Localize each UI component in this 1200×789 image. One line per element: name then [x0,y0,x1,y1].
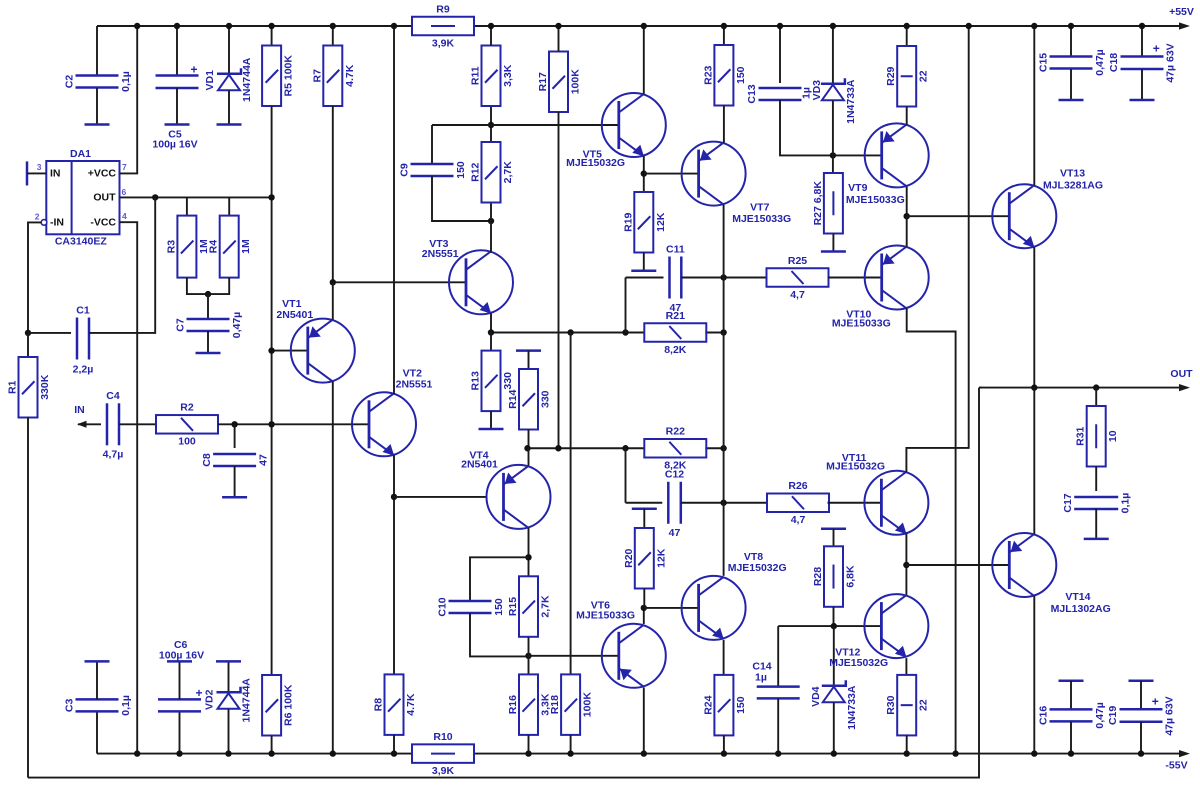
wire VT6 emitter to -55V rail [643,688,645,754]
junction -55V rail / R16 [525,750,531,756]
resistor R1 [7,357,52,418]
capacitor C12 [665,469,684,540]
OUT terminal arrow [1179,384,1190,391]
junction C12 wire / VT7-VT8 column [720,500,726,506]
wire VT11 collector to +55V rail [906,26,968,472]
junction VT11 emitter / VT12 collector / VT14 base [903,562,909,568]
transistor VT2 [352,392,416,456]
wire VT5 base wire [432,124,619,126]
wire VT14 emitter up to OUT node [1033,388,1035,534]
-55V terminal arrow [1179,750,1190,757]
wire R7 bottom to VT3 base node [332,106,334,282]
zener diode VD4 [810,680,858,730]
svg-text:R5 100K: R5 100K [283,55,295,97]
wire C1 right lead up to DA1 OUT [89,197,155,333]
wire C7 top lead [207,294,209,319]
junction row448 / C11-C12 column [622,445,628,451]
junction -55V sub-rail / DA1 -VCC [134,750,140,756]
wire VD4 anode lead [833,703,835,754]
wire R29 to VT9 emitter [906,107,908,125]
svg-text:150: 150 [735,696,747,714]
svg-text:1N4744A: 1N4744A [241,678,253,723]
resistor R30 [885,675,930,736]
wire R3 top lead [186,197,188,215]
wire C13 top lead [779,26,781,83]
wire C18 top lead [1141,26,1143,56]
ground below C7 [196,352,221,355]
svg-text:3,3K: 3,3K [502,64,514,87]
svg-text:C4: C4 [106,390,120,402]
transistor VT6 [602,624,666,688]
junction +55V rail / VT2 collector [391,23,397,29]
junction +55V rail / VT11 collector [966,23,972,29]
wire R7 top lead [332,26,334,46]
svg-text:R13: R13 [470,371,482,390]
svg-text:+: + [1153,42,1160,56]
svg-text:1µ: 1µ [755,671,767,683]
wire C16 top lead [1070,681,1072,709]
resistor R9 [412,3,474,49]
svg-text:3,9K: 3,9K [432,765,455,777]
wire C14 corner to VT12 base [778,625,881,627]
wire C10 branch lower [470,613,529,656]
junction OUT / VT13-VT14 emitters [1031,384,1037,390]
wire VT3 base from R7/VT1 emitter node [333,281,466,283]
capacitor C7 [175,312,244,339]
svg-text:R28: R28 [812,567,824,586]
terminal bar below R27 [821,250,846,253]
wire VT3 emitter row to R21 [491,332,644,334]
junction +55V rail / VT5 collector [641,23,647,29]
resistor R13 [470,351,515,412]
svg-text:2N5401: 2N5401 [461,459,498,471]
wire VD2 cathode lead [228,662,230,692]
resistor R23 [702,45,747,106]
junction -55V rail / C19 [1138,750,1144,756]
svg-text:R14: R14 [507,389,519,408]
resistor R10 [412,731,474,777]
ground below C2 [85,123,110,126]
wire VT12 emitter to R30 [905,658,907,675]
wire R28 bottom lead [833,607,835,626]
junction -55V rail / R30 [904,750,910,756]
wire C4 to R2 [119,423,156,425]
wire R3/R4 bottoms joined [187,278,229,295]
svg-text:4,7µ: 4,7µ [103,449,124,461]
ground below C17 [1084,538,1109,541]
svg-text:0,1µ: 0,1µ [120,71,132,92]
svg-text:R1: R1 [7,380,19,394]
svg-text:2,7K: 2,7K [540,595,552,618]
svg-text:C10: C10 [437,597,449,616]
ground above C3 [85,660,110,663]
wire R18 top long lead [570,333,572,675]
svg-text:C11: C11 [666,244,685,256]
resistor R29 [885,46,930,107]
terminal bar below R13 [479,428,504,431]
svg-text:MJE15032G: MJE15032G [728,562,787,574]
transistor VT11 [864,471,928,535]
ground above C6 [167,660,192,663]
svg-text:MJE15032G: MJE15032G [566,157,625,169]
wire VT7 collector column down to VT8 collector [723,205,725,576]
capacitor C16 [1038,702,1107,729]
svg-text:C8: C8 [201,453,213,467]
junction R21 / VT7 emitter column [720,329,726,335]
wire VT13 base lead [907,215,1009,217]
capacitor C14 [752,660,799,698]
svg-text:R7: R7 [311,69,323,83]
junction +55V rail / R23 [721,23,727,29]
ground below C5 [165,123,190,126]
wire R2 to VT2 base [218,423,368,425]
wire R20 bottom lead [643,589,645,608]
transistor VT12 [864,594,928,658]
wire C19 bottom lead [1140,722,1142,754]
svg-text:C3: C3 [64,699,76,713]
svg-text:+: + [1152,695,1159,709]
wire VD3 anode lead [832,101,834,156]
+55V terminal arrow [1179,22,1190,29]
svg-text:MJE15032G: MJE15032G [826,461,885,473]
svg-text:OUT: OUT [93,191,116,203]
wire C2 bottom lead [96,88,98,124]
ground above C19 [1129,679,1154,682]
resistor R4 [208,216,253,278]
svg-text:R26: R26 [788,480,807,492]
resistor R16 [507,674,552,735]
junction -55V rail / C16 [1068,750,1074,756]
svg-text:C18: C18 [1108,53,1120,72]
svg-text:2N5401: 2N5401 [276,309,313,321]
junction R17 bottom / row448 [555,445,561,451]
wire C1 left lead [28,332,71,334]
junction row332 / C11-C12 column [622,329,628,335]
resistor R15 [507,576,552,637]
wire VT3 collector lead [490,221,492,253]
junction +55V rail / C15 [1068,23,1074,29]
junction VT3 emitter / R13 [488,329,494,335]
wire OUT rail [979,387,1186,389]
svg-text:4: 4 [122,211,127,221]
capacitor C4 [103,390,124,461]
svg-text:47: 47 [670,302,682,314]
wire DA1 pin 4 -VCC down to negative sub-rail [120,222,138,753]
svg-text:R29: R29 [885,66,897,85]
capacitor C17 [1062,493,1132,514]
svg-text:47µ 63V: 47µ 63V [1164,696,1176,735]
wire C15 top lead [1070,26,1072,56]
svg-text:R17: R17 [537,72,549,91]
junction +55V rail / VT13 collector [1031,23,1037,29]
wire R17 bottom long lead to R22 wire [558,112,560,448]
svg-text:47: 47 [258,454,270,466]
junction DA1 OUT / C1 branch [152,194,158,200]
wire DA1 pin 6 OUT to R3/R4/R5 column [120,196,272,198]
svg-text:VT7: VT7 [750,202,769,214]
wire R11 top lead [490,26,492,46]
resistor R24 [702,675,747,736]
wire C5 top lead [176,26,178,76]
svg-text:IN: IN [74,404,85,416]
svg-text:330: 330 [502,372,514,390]
wire VT10 emitter up [906,216,908,247]
resistor R20 [623,528,668,589]
junction -55V rail / VT10 collector [952,750,958,756]
junction R2 wire / C8 [231,421,237,427]
junction -55V rail / VD4 [831,750,837,756]
wire R1 top lead [27,333,29,357]
wire C3 top lead [96,662,98,699]
svg-text:2: 2 [35,211,40,221]
svg-text:3: 3 [37,162,42,172]
svg-text:R15: R15 [507,597,519,616]
junction R5-R6 column / VT1 base [268,347,274,353]
svg-text:0,47µ: 0,47µ [231,312,243,339]
wire C12 right lead to R26 [681,502,767,504]
svg-text:R2: R2 [180,402,194,414]
capacitor C13 [746,84,812,103]
svg-text:10: 10 [1107,430,1119,442]
svg-text:VD3: VD3 [811,80,823,101]
svg-text:R9: R9 [436,3,450,15]
svg-text:MJE15033G: MJE15033G [832,318,891,330]
resistor R7 [311,46,356,107]
svg-text:100K: 100K [570,69,582,95]
wire DA1 -IN to C1/R1 node [28,222,41,333]
wire C2 top lead [96,26,98,75]
capacitor C6 [158,639,204,711]
svg-text:VD4: VD4 [810,686,822,707]
junction +55V rail / DA1 +VCC [134,23,140,29]
wire VT13 emitter to OUT node [1033,247,1035,387]
op-amp DA1 CA3140EZ [35,148,127,248]
zener diode VD1 [204,57,253,102]
svg-text:C9: C9 [399,163,411,177]
wire DA1 pin 7 +VCC to rail [120,26,138,173]
junction +55V rail / R7 [330,23,336,29]
wire VD1 cathode lead [228,26,230,73]
svg-text:R22: R22 [666,426,685,438]
transistor VT7 [682,142,746,206]
wire C9 bottom branch to R12/VT3 node [432,176,491,221]
junction +55V rail / R17 [555,23,561,29]
svg-text:MJL3281AG: MJL3281AG [1043,180,1103,192]
wire IN to C4 [78,423,101,425]
svg-text:MJE15033G: MJE15033G [846,194,905,206]
wire C7 bottom lead [207,331,209,352]
zener diode VD3 [811,78,857,124]
resistor R8 [373,674,418,735]
capacitor C3 [64,695,133,716]
resistor R6 [262,675,295,736]
svg-text:0,47µ: 0,47µ [1094,702,1106,729]
svg-text:3,9K: 3,9K [432,37,455,49]
svg-text:150: 150 [493,598,505,616]
wire VT1 emitter lead [332,282,334,320]
svg-text:0,47µ: 0,47µ [1094,49,1106,76]
svg-text:OUT: OUT [1170,368,1193,380]
svg-text:47: 47 [669,527,681,539]
svg-text:C16: C16 [1038,706,1050,725]
svg-text:R27 6,8K: R27 6,8K [812,181,824,226]
svg-text:4,7: 4,7 [790,289,805,301]
transistor VT14 [992,533,1056,597]
capacitor C18 [1108,42,1177,83]
wire C11 right lead to R25 [681,277,766,279]
svg-text:47µ 63V: 47µ 63V [1165,43,1177,82]
svg-text:R19: R19 [622,212,634,231]
wire R25 to VT10 base [828,277,882,279]
transistor VT10 [865,246,929,310]
wire VD2 anode lead [228,709,230,754]
wire C12 branch down [625,448,627,503]
svg-text:150: 150 [455,161,467,179]
svg-text:+55V: +55V [1169,6,1194,18]
svg-text:7: 7 [122,162,127,172]
svg-text:VD1: VD1 [204,70,216,91]
capacitor C8 [201,453,270,467]
svg-text:2,2µ: 2,2µ [73,364,94,376]
wire R16 bottom lead [528,735,530,754]
terminal bar above R20 [632,508,657,511]
wire C12 left lead [626,502,663,504]
wire R19 bottom lead [643,253,645,270]
wire R17 top lead [558,26,560,52]
resistor R21 [644,310,706,356]
wire C14 bottom lead [777,698,779,753]
svg-text:2N5551: 2N5551 [396,379,433,391]
resistor R31 [1075,406,1120,467]
wire C16 bottom lead [1070,722,1072,754]
wire R30 bottom lead [906,735,908,753]
svg-text:C15: C15 [1038,53,1050,72]
svg-text:1M: 1M [240,239,252,254]
svg-text:22: 22 [918,70,930,82]
svg-text:R6 100K: R6 100K [283,684,295,726]
wire -55V rail right of R10 [473,753,1186,755]
junction R12 bottom / C9 / VT3 collector [488,218,494,224]
wire C15 bottom lead [1070,69,1072,99]
svg-text:IN: IN [50,167,61,179]
terminal bar above R28 [821,528,846,531]
resistor R27 [812,173,843,234]
svg-text:C19: C19 [1107,706,1119,725]
wire R15 bottom lead [528,637,530,656]
transistor VT9 [865,123,929,187]
wire R12 bottom lead [490,203,492,222]
wire C17 bottom lead [1095,509,1097,538]
svg-text:C7: C7 [175,318,187,332]
junction +55V rail / C5 [174,23,180,29]
svg-text:C13: C13 [746,84,758,103]
terminal bar below R19 [631,270,656,273]
junction -55V sub-rail / VD2 [225,750,231,756]
capacitor C11 [666,244,685,315]
wire +55V rail right of R9 [474,25,1186,27]
junction row332 / R18 column [567,329,573,335]
wire R14 top lead [528,351,530,369]
svg-text:0,1µ: 0,1µ [120,695,132,716]
junction +55V rail / C18 [1139,23,1145,29]
svg-text:8,2K: 8,2K [664,344,687,356]
wire VT6 collector up [643,608,645,624]
resistor R19 [622,192,667,253]
junction VT4 collector / C10 branch / R15 [525,554,531,560]
junction OUT / R31 [1093,384,1099,390]
svg-text:C12: C12 [665,469,684,481]
junction +55V rail / VD1 [226,23,232,29]
resistor R18 [549,674,594,735]
wire C3 bottom lead [96,711,98,753]
wire VT1 collector to -55V sub-rail [332,382,334,754]
wire R22 row [528,447,645,449]
transistor VT5 [602,93,666,157]
svg-text:R31: R31 [1075,426,1087,445]
svg-text:0,1µ: 0,1µ [1120,493,1132,514]
wire VT4 emitter lead [528,448,530,465]
junction R7 / VT1 emitter / VT3 base [330,279,336,285]
terminal bar above R14 [516,349,541,352]
wire R16 top lead [528,656,530,675]
wire R5 top lead [271,26,273,46]
capacitor C15 [1038,49,1107,76]
svg-text:R30: R30 [885,695,897,714]
svg-text:MJE15032G: MJE15032G [829,657,888,669]
svg-text:VT9: VT9 [848,182,867,194]
svg-text:-IN: -IN [50,216,64,228]
junction -55V rail / R24 [721,750,727,756]
junction -55V sub-rail / R8 [391,750,397,756]
svg-text:6,8K: 6,8K [845,565,857,588]
svg-text:4.7K: 4.7K [344,64,356,87]
wire VT8 emitter to R24 [723,640,725,675]
svg-text:1N4733A: 1N4733A [846,685,858,730]
wire VT6 base wire [529,655,619,657]
wire DA1 pin 3 lead [27,172,46,174]
svg-text:150: 150 [735,66,747,84]
wire R13 bottom lead [490,411,492,428]
wire R23 top lead [723,26,725,45]
svg-text:CA3140EZ: CA3140EZ [55,236,108,248]
junction R11 / R12 / VT5 base wire [488,122,494,128]
junction +55V rail / R11 [488,23,494,29]
transistor VT3 [449,250,513,314]
junction R14 / VT4 collector? node [524,445,530,451]
IN terminal arrow [77,421,87,428]
wire R21 right lead [705,332,723,334]
junction R3/R4 node / C7 [205,291,211,297]
inversion bubble at DA1 pin 2 [41,220,47,226]
wire VT14 collector to -55V rail [1033,596,1035,754]
wire R31 to C17 [1095,467,1097,492]
junction -IN / C1 / R1 [25,330,31,336]
svg-text:VD2: VD2 [204,689,216,710]
ground above C16 [1059,679,1084,682]
wire C5 bottom lead [176,88,178,124]
wire VT5 emitter to R19 [643,156,645,192]
svg-text:MJL1302AG: MJL1302AG [1051,603,1111,615]
wire VT3 emitter lead [490,314,492,333]
junction -55V sub-rail / C6 [176,750,182,756]
wire VT7 base lead [644,173,699,175]
capacitor C9 [399,161,468,179]
wire VT14 base lead [906,564,1008,566]
wire C11 branch up [625,278,627,333]
wire C19 top lead [1140,681,1142,709]
svg-text:VT13: VT13 [1060,167,1085,179]
svg-text:-VCC: -VCC [90,216,116,228]
